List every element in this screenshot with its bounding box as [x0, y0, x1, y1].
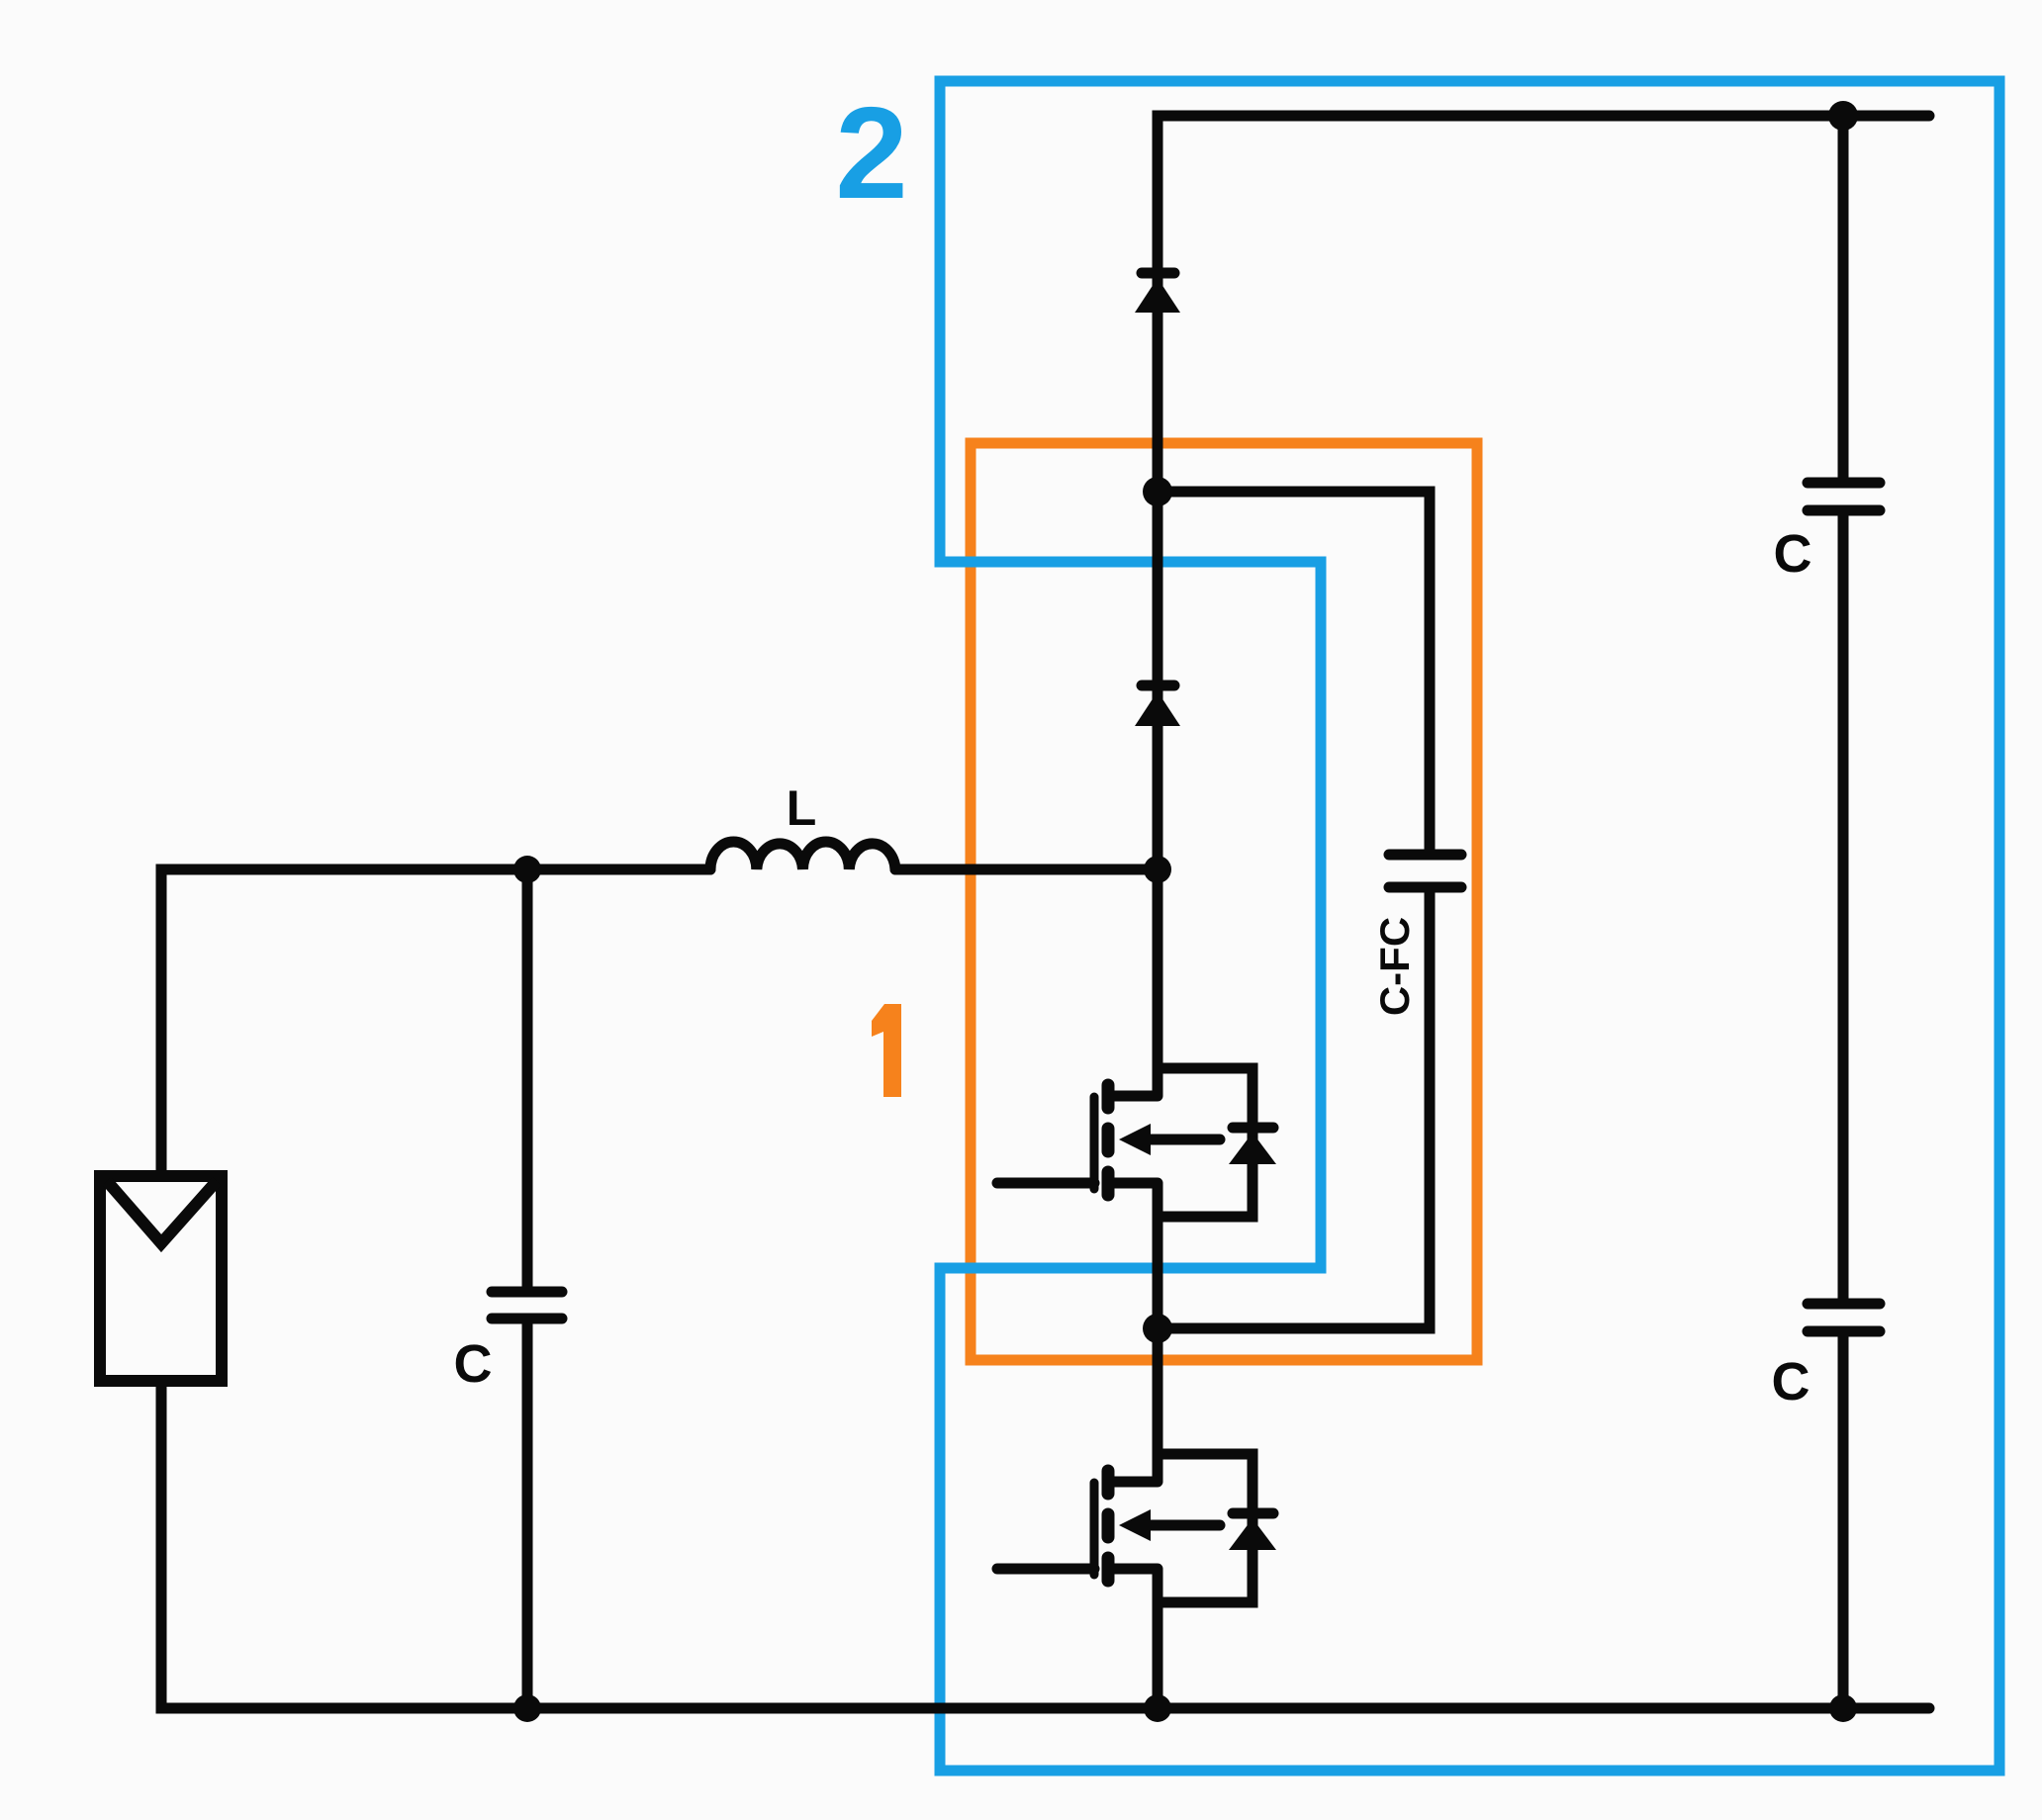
- Q2 body diode triangle: [1229, 1518, 1276, 1550]
- wire: output branch middle lead: [1838, 515, 1849, 1300]
- Q1 source jog: [1108, 1178, 1158, 1189]
- inductor L: [710, 842, 895, 869]
- node: ground mid: [1144, 1694, 1171, 1722]
- Q1 body arrowhead: [1119, 1124, 1151, 1155]
- node A (diode junction / flying cap top): [1143, 477, 1172, 506]
- Q1 body diode triangle: [1229, 1133, 1276, 1164]
- Q2 source jog: [1108, 1564, 1158, 1575]
- Q2 body arrowhead: [1119, 1509, 1151, 1541]
- Q2 drain/source to body-diode branch: [1158, 1454, 1253, 1602]
- svg-text:C: C: [1772, 1352, 1810, 1411]
- node B (flying cap bottom junction): [1143, 1314, 1172, 1343]
- svg-text:2: 2: [835, 80, 907, 226]
- Q2 gate lead: [997, 1564, 1094, 1575]
- wire: PV bottom to ground rail: [161, 1381, 1929, 1708]
- Q1 gate bar: [1090, 1097, 1099, 1189]
- PV panel source: [100, 1176, 222, 1381]
- Q2 drain jog: [1108, 1477, 1158, 1488]
- capacitor C (output lower): [1808, 1304, 1880, 1331]
- capacitor C (output upper): [1808, 483, 1880, 510]
- wire: inductor to switch node C: [895, 864, 1158, 875]
- label 1: [872, 1004, 901, 1097]
- diode D1 (middle): [1135, 685, 1180, 726]
- wire: input top rail with corner to PV: [161, 869, 710, 1176]
- Q2 channel bars: [1102, 1471, 1115, 1494]
- capacitor C (input): [492, 1292, 562, 1319]
- wire: top output rail: [1158, 116, 1929, 1096]
- Q1 gate lead: [997, 1178, 1094, 1189]
- svg-text:C-FC: C-FC: [1371, 917, 1418, 1016]
- Q2 body diode bar: [1233, 1508, 1273, 1519]
- loop 2 outline (blue): [940, 81, 1999, 1771]
- Q1 drain/source to body-diode branch: [1158, 1068, 1253, 1217]
- svg-text:C: C: [1774, 524, 1812, 584]
- wire: output branch upper lead: [1838, 116, 1849, 478]
- wire: node A to flying cap top: [1158, 492, 1430, 849]
- Q1 channel bars: [1102, 1085, 1115, 1108]
- Q2 body arrow line: [1148, 1520, 1220, 1531]
- flying capacitor C-FC: [1389, 855, 1461, 887]
- node: output bottom: [1829, 1694, 1857, 1722]
- svg-text:L: L: [787, 780, 817, 836]
- node: input cap bottom: [513, 1694, 541, 1722]
- Q2 gate bar: [1090, 1483, 1099, 1575]
- loop 1 outline (orange): [971, 443, 1477, 1360]
- Q1 body diode bar: [1233, 1123, 1273, 1134]
- svg-text:C: C: [454, 1334, 493, 1394]
- wire: input capacitor top lead: [522, 869, 533, 1288]
- wire: lower MOSFET source to ground: [1153, 1569, 1163, 1708]
- node C (switch node / inductor junction): [1144, 856, 1171, 883]
- Q1 drain jog: [1108, 1091, 1158, 1102]
- node: output top: [1828, 101, 1858, 131]
- wire: input capacitor bottom lead: [522, 1322, 533, 1708]
- node: input cap top: [513, 856, 541, 883]
- MOSFET Q1 (upper): [997, 1068, 1273, 1217]
- diode D2 (top): [1135, 273, 1180, 313]
- MOSFET Q2 (lower): [997, 1454, 1273, 1602]
- wire: flying cap bottom to node B: [1158, 893, 1430, 1328]
- Q1 body arrow line: [1148, 1135, 1220, 1145]
- wire: upper MOSFET source to node B: [1153, 1183, 1163, 1482]
- wire: output branch lower lead: [1838, 1336, 1849, 1708]
